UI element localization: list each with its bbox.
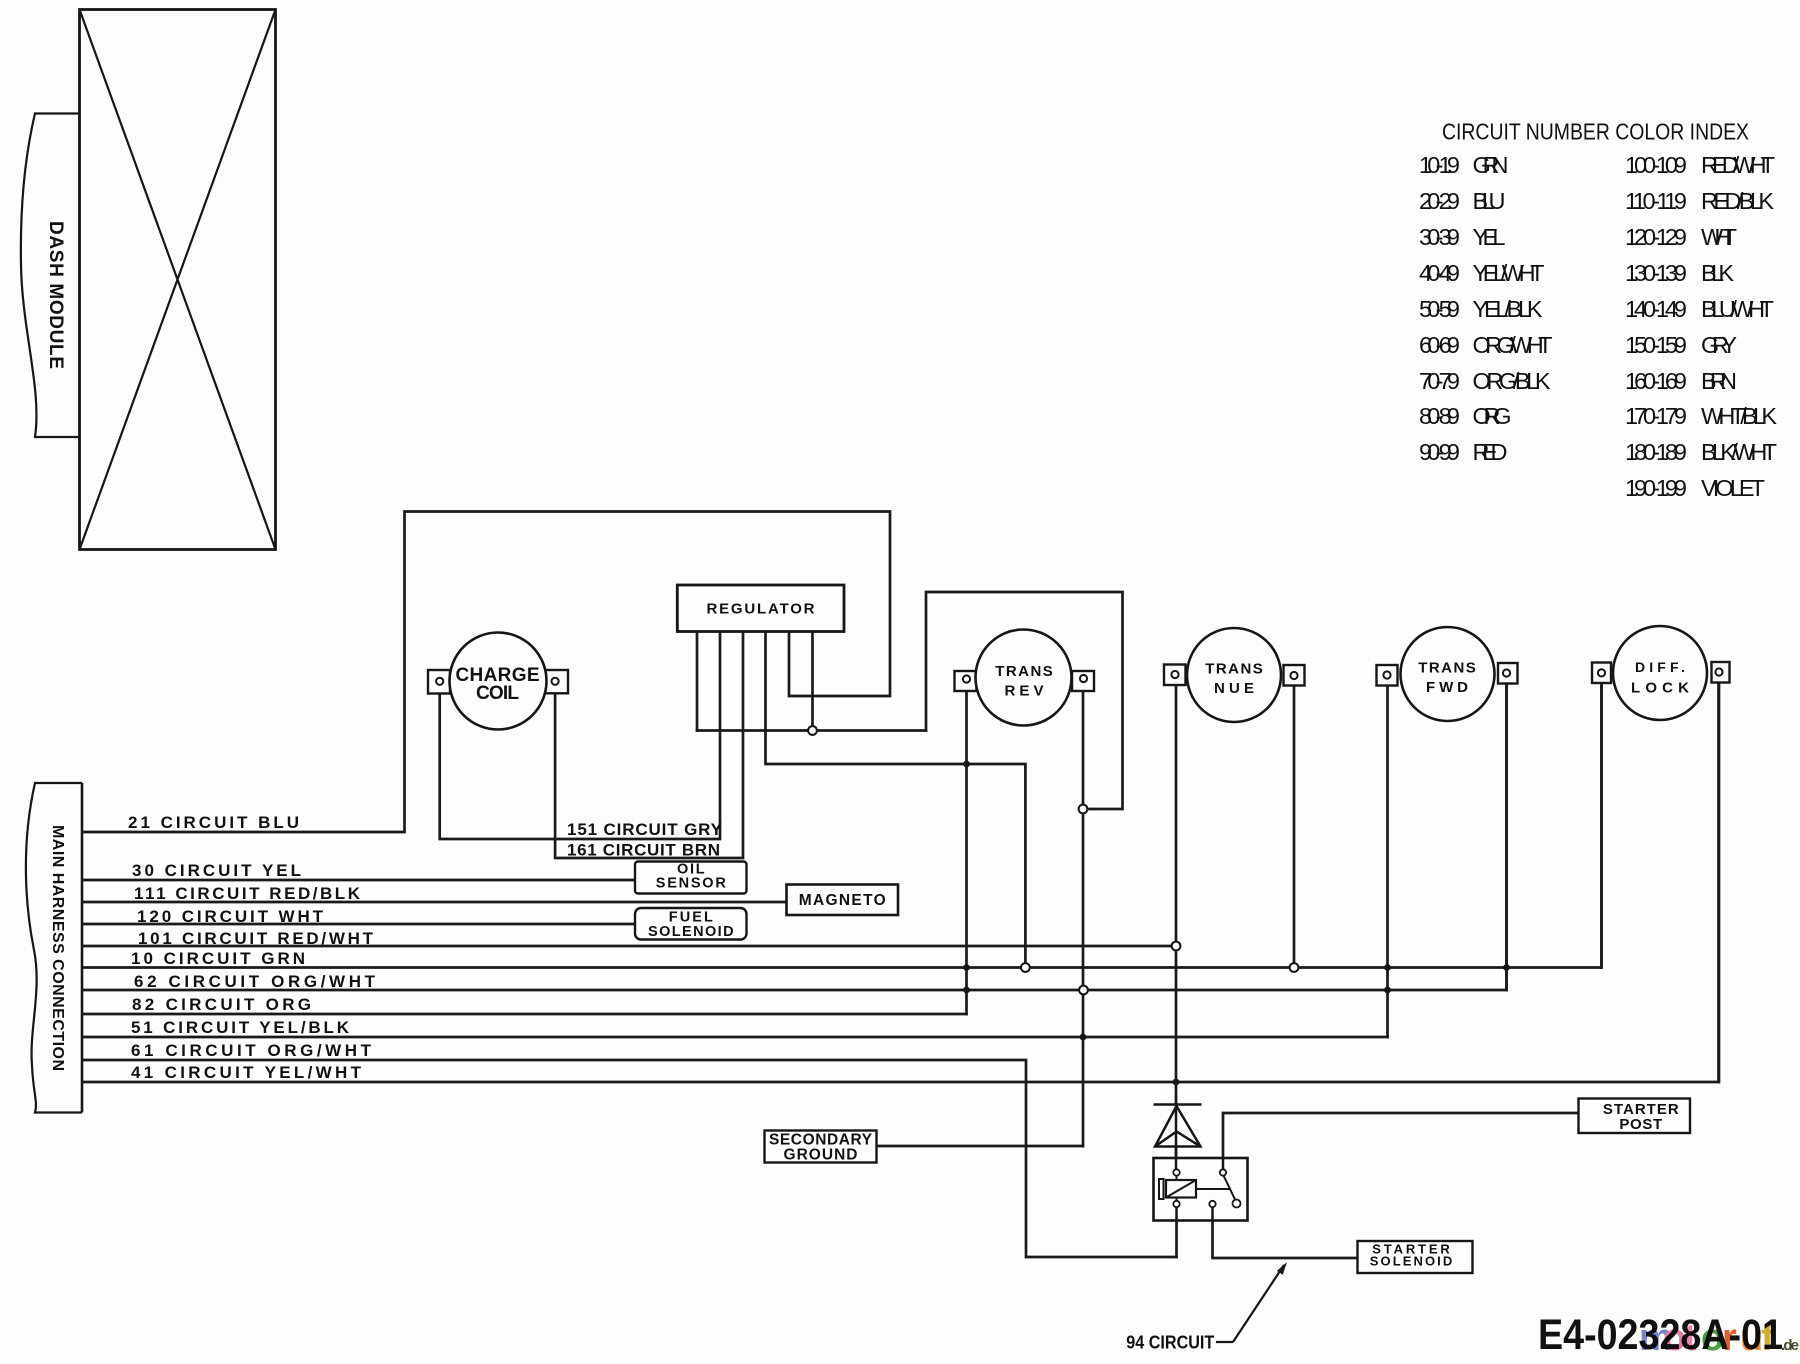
- svg-text:YEL/BLK: YEL/BLK: [1473, 296, 1543, 322]
- svg-text:FWD: FWD: [1426, 679, 1468, 696]
- svg-text:110-119: 110-119: [1625, 188, 1687, 214]
- svg-text:CIRCUIT NUMBER COLOR INDEX: CIRCUIT NUMBER COLOR INDEX: [1442, 119, 1749, 145]
- svg-text:50-59: 50-59: [1419, 296, 1460, 322]
- svg-text:40-49: 40-49: [1419, 260, 1460, 286]
- svg-text:20-29: 20-29: [1419, 188, 1460, 214]
- svg-text:82 CIRCUIT ORG: 82 CIRCUIT ORG: [132, 995, 311, 1014]
- svg-text:94 CIRCUIT: 94 CIRCUIT: [1126, 1332, 1215, 1353]
- svg-text:190-199: 190-199: [1625, 475, 1687, 501]
- svg-text:BRN: BRN: [1701, 368, 1737, 394]
- svg-text:WHT/BLK: WHT/BLK: [1701, 403, 1777, 429]
- svg-text:120-129: 120-129: [1625, 224, 1687, 250]
- svg-text:41 CIRCUIT YEL/WHT: 41 CIRCUIT YEL/WHT: [131, 1063, 362, 1082]
- svg-text:o: o: [1701, 1317, 1724, 1359]
- svg-text:161 CIRCUIT BRN: 161 CIRCUIT BRN: [567, 841, 720, 860]
- svg-text:WHT: WHT: [1701, 224, 1737, 250]
- svg-text:SOLENOID: SOLENOID: [1370, 1254, 1453, 1269]
- svg-text:80-89: 80-89: [1419, 403, 1460, 429]
- svg-text:REGULATOR: REGULATOR: [707, 601, 815, 618]
- svg-text:POST: POST: [1619, 1116, 1662, 1133]
- svg-text:u: u: [1740, 1317, 1763, 1359]
- svg-text:151 CIRCUIT GRY: 151 CIRCUIT GRY: [567, 820, 723, 839]
- svg-text:GROUND: GROUND: [784, 1147, 858, 1164]
- svg-text:TRANS: TRANS: [1418, 660, 1476, 677]
- svg-text:SOLENOID: SOLENOID: [648, 924, 734, 940]
- svg-text:YEL/WHT: YEL/WHT: [1473, 260, 1545, 286]
- svg-text:30-39: 30-39: [1419, 224, 1460, 250]
- svg-text:21 CIRCUIT BLU: 21 CIRCUIT BLU: [128, 813, 299, 832]
- svg-text:170-179: 170-179: [1625, 403, 1687, 429]
- svg-text:ORG/BLK: ORG/BLK: [1473, 368, 1551, 394]
- svg-text:61 CIRCUIT ORG/WHT: 61 CIRCUIT ORG/WHT: [131, 1041, 372, 1060]
- svg-text:SENSOR: SENSOR: [656, 876, 727, 892]
- svg-text:BLK: BLK: [1701, 260, 1734, 286]
- svg-text:60-69: 60-69: [1419, 332, 1460, 358]
- svg-text:r: r: [1722, 1317, 1737, 1359]
- svg-text:t: t: [1684, 1317, 1697, 1359]
- svg-text:130-139: 130-139: [1625, 260, 1687, 286]
- svg-text:GRY: GRY: [1701, 332, 1737, 358]
- svg-text:VIOLET: VIOLET: [1701, 475, 1765, 501]
- svg-text:RED/WHT: RED/WHT: [1701, 152, 1775, 178]
- svg-text:ORG/WHT: ORG/WHT: [1473, 332, 1553, 358]
- svg-text:COIL: COIL: [476, 683, 519, 704]
- svg-text:ORG: ORG: [1473, 403, 1512, 429]
- svg-text:BLK/WHT: BLK/WHT: [1701, 439, 1777, 465]
- svg-text:TRANS: TRANS: [995, 663, 1053, 680]
- svg-text:62 CIRCUIT ORG/WHT: 62 CIRCUIT ORG/WHT: [134, 972, 376, 991]
- svg-text:YEL: YEL: [1473, 224, 1506, 250]
- svg-text:51 CIRCUIT YEL/BLK: 51 CIRCUIT YEL/BLK: [131, 1018, 350, 1037]
- svg-text:MAIN HARNESS CONNECTION: MAIN HARNESS CONNECTION: [49, 825, 66, 1071]
- svg-text:70-79: 70-79: [1419, 368, 1460, 394]
- svg-text:REV: REV: [1005, 683, 1044, 700]
- svg-text:10-19: 10-19: [1419, 152, 1460, 178]
- svg-text:TRANS: TRANS: [1205, 661, 1263, 678]
- svg-text:o: o: [1663, 1317, 1686, 1359]
- svg-text:180-189: 180-189: [1625, 439, 1687, 465]
- svg-text:f: f: [1761, 1317, 1774, 1359]
- svg-text:RED: RED: [1473, 439, 1508, 465]
- svg-text:BLU/WHT: BLU/WHT: [1701, 296, 1774, 322]
- svg-text:150-159: 150-159: [1625, 332, 1687, 358]
- svg-text:BLU: BLU: [1473, 188, 1506, 214]
- svg-text:10 CIRCUIT GRN: 10 CIRCUIT GRN: [131, 949, 305, 968]
- svg-text:90-99: 90-99: [1419, 439, 1460, 465]
- svg-text:160-169: 160-169: [1625, 368, 1687, 394]
- svg-text:140-149: 140-149: [1625, 296, 1687, 322]
- svg-text:100-109: 100-109: [1625, 152, 1687, 178]
- svg-text:DASH MODULE: DASH MODULE: [45, 221, 66, 369]
- svg-text:GRN: GRN: [1473, 152, 1509, 178]
- svg-text:.de: .de: [1781, 1337, 1799, 1354]
- svg-text:NUE: NUE: [1214, 680, 1254, 697]
- svg-text:RED/BLK: RED/BLK: [1701, 188, 1774, 214]
